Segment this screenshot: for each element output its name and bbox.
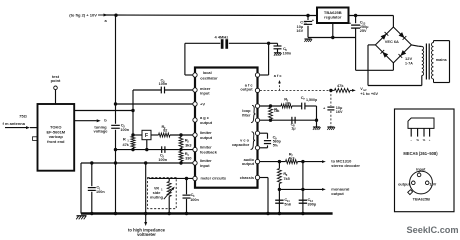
- svg-text:390p: 390p: [308, 202, 317, 206]
- svg-text:mains: mains: [436, 58, 447, 62]
- svg-text:output: output: [242, 161, 255, 166]
- svg-text:front end: front end: [47, 139, 65, 144]
- svg-text:TBA625B: TBA625B: [413, 196, 430, 201]
- svg-text:SeekIC.com: SeekIC.com: [407, 225, 459, 235]
- svg-text:100n: 100n: [159, 82, 168, 86]
- svg-text:5%: 5%: [273, 143, 279, 147]
- svg-text:regulator: regulator: [324, 15, 342, 20]
- svg-text:VEC 6A: VEC 6A: [385, 39, 399, 44]
- svg-text:muting: muting: [150, 194, 164, 199]
- svg-text:25V: 25V: [360, 29, 367, 33]
- svg-text:feedback: feedback: [200, 149, 218, 154]
- svg-text:oscillator: oscillator: [200, 75, 218, 80]
- svg-text:f m antenna: f m antenna: [3, 121, 26, 126]
- svg-text:filter: filter: [242, 113, 251, 118]
- svg-text:330: 330: [185, 157, 191, 161]
- svg-text:7k5: 7k5: [283, 177, 289, 181]
- svg-text:capacitor: capacitor: [232, 142, 250, 147]
- svg-text:input: input: [416, 168, 426, 172]
- svg-text:100n: 100n: [120, 128, 129, 132]
- svg-text:100n: 100n: [190, 198, 199, 202]
- svg-text:4k3: 4k3: [288, 156, 294, 160]
- svg-text:1·7A: 1·7A: [405, 61, 413, 65]
- svg-text:47k: 47k: [122, 143, 129, 147]
- svg-text:10V: 10V: [430, 182, 437, 186]
- svg-text:16V: 16V: [336, 110, 343, 114]
- svg-text:4 4MHz: 4 4MHz: [215, 35, 229, 40]
- svg-text:local: local: [203, 70, 212, 75]
- svg-text:100n: 100n: [96, 190, 105, 194]
- svg-text:MECA5 (261–508): MECA5 (261–508): [403, 151, 438, 156]
- svg-text:meter circuits: meter circuits: [201, 176, 227, 181]
- svg-text:(to fig 2) + 10V: (to fig 2) + 10V: [69, 13, 97, 18]
- svg-text:chassis: chassis: [240, 175, 254, 180]
- svg-text:47k: 47k: [337, 83, 344, 88]
- svg-text:output: output: [398, 182, 411, 186]
- svg-text:input: input: [200, 91, 210, 96]
- svg-text:R: R: [123, 137, 126, 142]
- svg-text:10: 10: [303, 21, 307, 25]
- svg-text:16V: 16V: [296, 29, 303, 33]
- svg-text:72k: 72k: [273, 109, 279, 113]
- svg-text:+1 to +6V: +1 to +6V: [360, 91, 378, 96]
- svg-text:stereo decoder: stereo decoder: [331, 163, 360, 168]
- svg-text:100n: 100n: [158, 158, 167, 162]
- svg-text:input: input: [200, 163, 210, 168]
- svg-text:+V: +V: [200, 101, 205, 106]
- svg-text:voltmeter: voltmeter: [137, 232, 156, 237]
- svg-text:a f c: a f c: [274, 73, 283, 78]
- svg-text:output: output: [331, 191, 344, 196]
- svg-text:3k3: 3k3: [185, 144, 191, 148]
- svg-text:output: output: [200, 135, 213, 140]
- svg-text:output: output: [200, 120, 213, 125]
- svg-text:100n: 100n: [283, 51, 292, 55]
- svg-text:output: output: [240, 87, 253, 92]
- svg-text:1μ: 1μ: [291, 127, 296, 131]
- svg-text:5n6: 5n6: [284, 202, 291, 206]
- svg-text:1,500p: 1,500p: [306, 98, 318, 102]
- svg-text:point: point: [51, 78, 61, 83]
- svg-text:82: 82: [163, 128, 167, 132]
- svg-text:voltage: voltage: [93, 129, 108, 134]
- svg-text:75Ω: 75Ω: [19, 114, 27, 119]
